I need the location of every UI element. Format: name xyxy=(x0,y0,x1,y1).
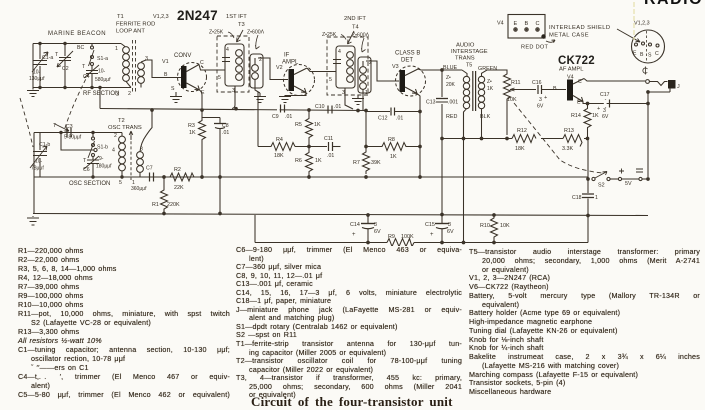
svg-text:+: + xyxy=(430,232,434,238)
svg-text:1: 1 xyxy=(115,46,118,52)
svg-text:220K: 220K xyxy=(167,202,180,208)
label 1ST IFT T3 xyxy=(226,14,247,28)
wire: RF box bottom xyxy=(33,87,131,89)
svg-text:CLASS B: CLASS B xyxy=(395,51,420,57)
wire: lower bus left riser xyxy=(254,215,256,243)
svg-text:R5: R5 xyxy=(295,122,302,128)
ground (V1 shield pin) xyxy=(170,92,182,103)
svg-text:T1: T1 xyxy=(117,14,124,20)
svg-text:T: T xyxy=(53,123,57,129)
svg-text:C15: C15 xyxy=(425,222,435,228)
svg-text:R7: R7 xyxy=(353,160,360,166)
wire: T3 secondary bottom to ground xyxy=(255,79,260,93)
svg-text:C11: C11 xyxy=(324,136,333,142)
svg-text:1: 1 xyxy=(595,195,598,201)
svg-text:Z•25K: Z•25K xyxy=(209,30,224,36)
svg-text:Z•600Λ: Z•600Λ xyxy=(247,30,265,36)
resistor R9 xyxy=(387,234,414,247)
T3 primary winding xyxy=(218,44,244,94)
svg-text:5: 5 xyxy=(119,180,122,186)
svg-text:1K: 1K xyxy=(189,130,196,136)
wire: RF box left xyxy=(32,44,34,88)
wire: S2/C18 riser xyxy=(587,139,589,180)
label AUDIO INTERSTAGE TRANS T5 xyxy=(451,43,488,69)
svg-text:C: C xyxy=(536,21,540,27)
svg-text:1K: 1K xyxy=(390,154,397,160)
capacitor C17 xyxy=(597,92,610,120)
T4 primary winding xyxy=(329,46,355,96)
dashed gang link R11/S2 xyxy=(514,103,602,173)
wire: RED lead riser to lower bus xyxy=(463,112,465,243)
ground (RF left) xyxy=(27,88,39,97)
svg-text:2ND IFT: 2ND IFT xyxy=(344,16,366,22)
svg-text:C1-a: C1-a xyxy=(42,55,53,61)
svg-text:INTERLEAD SHIELD: INTERLEAD SHIELD xyxy=(549,25,611,31)
parts list: left column xyxy=(18,246,230,399)
svg-text:4: 4 xyxy=(112,148,115,154)
svg-text:Z•600Λ: Z•600Λ xyxy=(352,33,370,39)
svg-text:MARINE BEACON: MARINE BEACON xyxy=(48,31,106,37)
svg-text:S1-a: S1-a xyxy=(97,56,108,62)
faint fold line xyxy=(633,2,635,40)
svg-text:.001: .001 xyxy=(448,100,458,106)
wire: V4 collector to output jack xyxy=(584,79,645,82)
svg-text:1K: 1K xyxy=(314,122,321,128)
ground (T4) xyxy=(352,95,364,112)
svg-text:9-: 9- xyxy=(99,156,104,162)
wire: osc left riser to ground bus xyxy=(33,177,35,214)
svg-text:22K: 22K xyxy=(174,185,184,191)
label Z=600 (T4) xyxy=(352,33,370,53)
label CONV V1 xyxy=(162,53,191,65)
resistor R6 xyxy=(295,147,322,179)
wire: T4 secondary bottom riser xyxy=(362,89,364,110)
svg-text:+: + xyxy=(352,232,356,238)
capacitor C3 (series trimmer in osc top wire) xyxy=(53,123,82,141)
caption (cropped at page bottom) xyxy=(251,394,461,410)
svg-text:T: T xyxy=(82,64,86,70)
resistor R5 xyxy=(295,109,321,146)
svg-text:C9: C9 xyxy=(272,114,279,120)
svg-text:.01: .01 xyxy=(285,114,292,120)
svg-text:C: C xyxy=(655,51,659,57)
wire: V1 collector to T3 xyxy=(199,65,225,71)
svg-text:+: + xyxy=(544,95,547,101)
capacitor C7 (series in supply rail) xyxy=(131,166,154,193)
wire: jack tip lead xyxy=(650,82,668,86)
svg-text:METAL CASE: METAL CASE xyxy=(549,33,589,39)
svg-text:10-: 10- xyxy=(33,70,41,76)
svg-text:V1,2,3: V1,2,3 xyxy=(634,21,650,27)
svg-text:LOOP ANT: LOOP ANT xyxy=(116,29,145,35)
svg-text:B: B xyxy=(640,52,644,58)
label: T1 FERRITE ROD LOOP ANT xyxy=(116,14,155,35)
svg-text:R2: R2 xyxy=(174,167,181,173)
svg-text:130μμf: 130μμf xyxy=(29,76,45,82)
svg-text:Z•: Z• xyxy=(446,75,451,81)
T3 secondary winding xyxy=(250,54,263,88)
svg-text:S2: S2 xyxy=(598,183,605,189)
resistor R4 xyxy=(258,137,295,159)
oscillator coil T2 primary xyxy=(112,133,125,187)
label Z=25K (T3) xyxy=(209,30,234,39)
svg-text:4: 4 xyxy=(338,49,341,55)
jack terminal circle xyxy=(646,80,650,84)
svg-text:C: C xyxy=(578,79,582,85)
svg-text:C7: C7 xyxy=(146,166,153,172)
svg-text:1K: 1K xyxy=(315,158,322,164)
wire: T1 secondary to V1 base xyxy=(146,60,181,78)
wire: R3/C8 top tie to bias line xyxy=(202,110,220,118)
svg-text:V1: V1 xyxy=(162,59,169,65)
capacitor C10 (series in bias line) xyxy=(315,104,341,114)
svg-text:5: 5 xyxy=(329,77,332,83)
svg-text:C17: C17 xyxy=(600,92,610,98)
potentiometer R11 with switch link xyxy=(503,70,536,140)
wire: jack sleeve return xyxy=(648,92,670,177)
centreline mark xyxy=(643,67,648,75)
svg-text:3: 3 xyxy=(145,56,148,62)
transistor V1 (converter) xyxy=(171,60,207,96)
svg-text:R1: R1 xyxy=(152,202,159,208)
svg-text:CONV: CONV xyxy=(174,53,191,59)
svg-text:.01: .01 xyxy=(327,153,334,159)
svg-text:RED DOT: RED DOT xyxy=(521,45,549,51)
svg-text:580μμf: 580μμf xyxy=(95,77,111,83)
T3 tuning slug arrow xyxy=(237,30,244,42)
svg-text:39K: 39K xyxy=(371,160,381,166)
wire: T4 secondary to V3 base xyxy=(366,61,399,81)
svg-text:4: 4 xyxy=(226,47,229,53)
wire: T3 secondary to V2 base xyxy=(258,58,288,80)
label 2ND IFT T4 xyxy=(344,16,366,31)
ground (main bus left end) xyxy=(27,216,39,225)
wire: R4/R5/R6/C11 node xyxy=(295,146,327,148)
svg-text:R11: R11 xyxy=(511,80,521,86)
svg-text:R4: R4 xyxy=(276,137,283,143)
svg-text:.01: .01 xyxy=(334,104,341,110)
2nd IF transformer T4 (dashed shield box) xyxy=(327,37,368,95)
transistor case circle (base diagram) xyxy=(632,30,665,63)
switch S1-a with trimmer C4 xyxy=(77,44,111,89)
transistor V3 (class B detector) xyxy=(396,66,426,96)
svg-text:BLUE: BLUE xyxy=(443,65,457,71)
wire: T2 secondary feedback to bias line xyxy=(140,110,152,152)
wire: V4 emitter node xyxy=(583,102,648,104)
T4 secondary winding xyxy=(358,57,372,96)
wire: BLUE lead riser (C13 branch) xyxy=(441,70,443,97)
svg-text:C10: C10 xyxy=(315,104,325,110)
capacitor C2 (trimmer) xyxy=(55,42,73,88)
svg-text:R12: R12 xyxy=(517,128,527,134)
svg-text:6V: 6V xyxy=(374,229,381,235)
svg-text:J: J xyxy=(677,84,680,90)
svg-text:Z•: Z• xyxy=(487,79,492,85)
svg-text:RED: RED xyxy=(446,114,457,120)
svg-text:C14: C14 xyxy=(350,222,360,228)
svg-text:C18: C18 xyxy=(572,195,582,201)
wire: RF bottom to bias line xyxy=(99,88,101,109)
capacitor C1-b (tuning, oscillator section) xyxy=(30,133,50,178)
svg-text:BC: BC xyxy=(77,45,84,51)
svg-text:S: S xyxy=(171,86,175,92)
svg-text:AMPL: AMPL xyxy=(282,60,299,66)
capacitor C16 xyxy=(532,80,566,110)
svg-text:C1-b: C1-b xyxy=(39,142,50,148)
resistor R12 xyxy=(512,128,536,152)
svg-text:C8: C8 xyxy=(222,123,229,129)
wire: V1 emitter down to bias line xyxy=(200,90,203,108)
capacitor C8 xyxy=(214,118,229,215)
svg-text:5V: 5V xyxy=(625,181,632,187)
ganged tuning dashed link C1-a/C1-b xyxy=(20,98,33,147)
capacitor C14 xyxy=(350,214,381,244)
svg-text:B: B xyxy=(164,72,168,78)
svg-text:1ST IFT: 1ST IFT xyxy=(226,14,247,20)
svg-text:C: C xyxy=(200,60,204,66)
svg-text:E: E xyxy=(633,51,637,57)
svg-text:R8: R8 xyxy=(388,137,395,143)
wire: RF box top xyxy=(33,43,121,45)
svg-text:20K: 20K xyxy=(446,82,456,88)
label INTERLEAD SHIELD METAL CASE xyxy=(549,25,611,39)
svg-text:T5: T5 xyxy=(466,63,472,69)
resistor R3 xyxy=(188,118,206,179)
resistor R7 xyxy=(353,150,381,178)
wire: osc box top xyxy=(34,132,122,134)
wire: lower bus right riser xyxy=(587,216,589,243)
label: V1,2,3 2N247 xyxy=(153,8,218,23)
wire: osc box left xyxy=(33,133,35,178)
svg-text:BLK: BLK xyxy=(480,114,491,120)
svg-text:.01: .01 xyxy=(222,130,229,136)
wire: B- supply rail xyxy=(34,176,588,178)
wire: bias line (AVC) xyxy=(100,109,366,111)
svg-text:R3: R3 xyxy=(188,123,195,129)
ferrite rod (dashed) xyxy=(133,40,136,92)
svg-text:10K: 10K xyxy=(500,223,510,229)
svg-text:10K: 10K xyxy=(507,97,517,103)
ground (V2 emitter) xyxy=(279,97,291,103)
svg-text:3.3K: 3.3K xyxy=(562,146,573,152)
svg-text:AF AMPL: AF AMPL xyxy=(559,67,584,73)
svg-text:18K: 18K xyxy=(274,153,284,159)
wire: V3 collector to T5 xyxy=(418,69,462,70)
ground (T3 secondary) xyxy=(254,93,266,103)
label T2 OSC TRANS xyxy=(108,118,142,131)
svg-text:TRANS: TRANS xyxy=(455,56,475,62)
svg-text:R10: R10 xyxy=(480,223,490,229)
svg-text:C6: C6 xyxy=(83,167,90,173)
svg-text:E: E xyxy=(577,100,581,106)
wire: V3 emitter riser xyxy=(417,94,420,178)
resistor R13 xyxy=(562,128,582,152)
svg-text:180μμf: 180μμf xyxy=(96,164,112,170)
svg-text:C4: C4 xyxy=(83,74,90,80)
svg-text:INTERSTAGE: INTERSTAGE xyxy=(451,49,488,55)
resistor R14 xyxy=(571,104,599,139)
parts list: middle column xyxy=(236,246,462,400)
capacitor C12 (series) xyxy=(366,108,420,122)
svg-text:T4: T4 xyxy=(352,25,360,31)
red dot marker on socket xyxy=(521,34,555,50)
T2 slug (dashed core with arrow) xyxy=(129,131,133,180)
svg-text:18K: 18K xyxy=(515,146,525,152)
svg-text:Z•25K: Z•25K xyxy=(322,32,337,38)
svg-text:C13: C13 xyxy=(426,100,436,106)
antenna coil T1 secondary xyxy=(138,56,148,88)
svg-text:.01: .01 xyxy=(396,116,403,122)
svg-text:2: 2 xyxy=(116,92,119,98)
label Z=600 (T3) xyxy=(247,30,265,50)
schematic SVG xyxy=(0,0,705,246)
svg-text:B: B xyxy=(525,21,529,27)
svg-text:R6: R6 xyxy=(295,158,302,164)
svg-text:1: 1 xyxy=(365,90,368,96)
svg-text:S: S xyxy=(648,53,652,59)
transformer T5 secondary xyxy=(478,70,503,138)
svg-text:C3: C3 xyxy=(66,124,73,130)
wire: V2 collector to T4 xyxy=(307,68,336,72)
svg-text:V3: V3 xyxy=(392,64,399,70)
svg-text:GREEN: GREEN xyxy=(478,66,497,72)
svg-text:E: E xyxy=(514,21,518,27)
svg-text:V4: V4 xyxy=(497,21,504,27)
svg-text:6V: 6V xyxy=(447,229,454,235)
svg-text:1K: 1K xyxy=(592,113,599,119)
svg-text:2: 2 xyxy=(114,133,117,139)
wire: R7 riser xyxy=(365,111,367,151)
svg-text:1K: 1K xyxy=(487,86,494,92)
capacitor C9 (series in bias line) xyxy=(272,105,292,121)
switch S2 xyxy=(592,172,618,189)
1st IF transformer T3 (dashed shield box) xyxy=(217,36,249,92)
svg-text:T: T xyxy=(83,158,87,164)
svg-text:3: 3 xyxy=(374,222,377,228)
oscillator coil T2 secondary xyxy=(132,147,143,187)
svg-text:78μμf: 78μμf xyxy=(31,166,44,172)
resistor R1 xyxy=(152,176,180,214)
capacitor C13 xyxy=(426,99,458,215)
svg-text:5-80μμf: 5-80μμf xyxy=(64,135,82,141)
wire: spare switch throw xyxy=(61,133,97,152)
resistor R10 xyxy=(480,214,510,244)
battery 5V xyxy=(618,169,649,188)
label IF AMPL V2 xyxy=(276,53,299,72)
svg-text:OSC SECTION: OSC SECTION xyxy=(69,181,110,187)
resistor R8 xyxy=(365,137,422,160)
svg-text:6V: 6V xyxy=(602,114,609,120)
svg-text:FERRITE ROD: FERRITE ROD xyxy=(116,22,155,28)
label CLASS B DET V3 xyxy=(392,51,420,71)
capacitor C15 xyxy=(425,213,454,244)
wire: T4 primary bottom to ground stub xyxy=(345,88,353,109)
transistor V4 (audio amplifier) xyxy=(567,75,584,106)
transformer T5 primary xyxy=(446,70,470,139)
svg-text:10-: 10- xyxy=(98,69,106,75)
svg-text:C2: C2 xyxy=(62,66,69,72)
ganged switch dashed link S1-a/S1-b xyxy=(64,73,89,131)
svg-text:6V: 6V xyxy=(537,104,544,110)
transformer T5 core xyxy=(473,71,476,111)
svg-text:360μμf: 360μμf xyxy=(131,186,147,192)
capacitor C11 xyxy=(324,136,341,159)
svg-text:B: B xyxy=(553,86,557,92)
wire: bias line R12/R13 xyxy=(442,138,588,140)
svg-text:100K: 100K xyxy=(401,234,414,240)
wire: V2 emitter to ground xyxy=(285,93,306,97)
svg-text:+: + xyxy=(597,106,600,112)
T4 tuning slug arrow xyxy=(348,31,355,44)
label CK722 AF AMPL xyxy=(558,55,595,73)
svg-text:5: 5 xyxy=(218,75,221,81)
svg-text:OSC TRANS: OSC TRANS xyxy=(108,125,142,131)
svg-text:C16: C16 xyxy=(532,80,542,86)
svg-text:T: T xyxy=(55,52,59,58)
svg-text:CK722: CK722 xyxy=(558,55,595,67)
antenna coil T1 primary xyxy=(115,44,131,98)
transistor V2 (IF amplifier) xyxy=(284,65,315,96)
svg-text:C12: C12 xyxy=(378,116,388,122)
svg-text:V2: V2 xyxy=(276,65,283,71)
svg-text:S1-b: S1-b xyxy=(97,145,108,151)
pointer to case centre xyxy=(617,29,640,42)
svg-text:2: 2 xyxy=(128,91,131,97)
phone jack J xyxy=(668,80,680,92)
svg-text:T2: T2 xyxy=(118,118,125,124)
svg-text:DET: DET xyxy=(401,58,413,64)
svg-text:3: 3 xyxy=(539,97,542,103)
wire: ground bus xyxy=(33,214,648,216)
svg-text:10-: 10- xyxy=(35,159,43,165)
wire: T3 primary bottom to bias line xyxy=(232,86,235,109)
switch S1-b with trimmer C6 xyxy=(83,133,112,179)
svg-text:R13: R13 xyxy=(564,128,574,134)
resistor R2 xyxy=(170,167,194,191)
svg-text:RF SECTION: RF SECTION xyxy=(83,91,119,97)
capacitor C1-a (tuning, antenna section) xyxy=(29,44,53,88)
magazine running head (cropped) xyxy=(644,0,703,9)
V4 socket outline (E B C) xyxy=(497,15,545,39)
svg-text:R14: R14 xyxy=(571,113,581,119)
svg-text:T3: T3 xyxy=(238,22,245,28)
svg-text:2N247: 2N247 xyxy=(177,8,218,23)
svg-text:3: 3 xyxy=(448,222,451,228)
wire: battery return lower bus xyxy=(255,242,588,244)
junction dots RF xyxy=(39,86,41,88)
wire: R4 left riser xyxy=(257,92,259,147)
parts list: right column xyxy=(469,248,700,397)
label Z=25K (T4) xyxy=(322,32,346,40)
svg-text:V1,2,3: V1,2,3 xyxy=(153,14,169,20)
svg-text:IF: IF xyxy=(284,53,290,59)
capacitor C18 xyxy=(572,179,598,217)
svg-text:R9: R9 xyxy=(388,234,395,240)
svg-text:AUDIO: AUDIO xyxy=(456,43,475,49)
